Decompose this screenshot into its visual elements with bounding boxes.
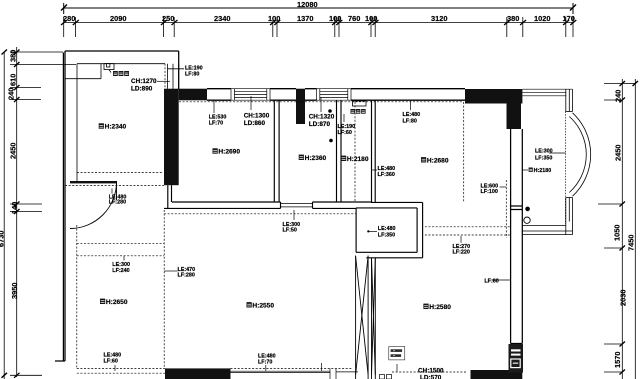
svg-text:LF:360: LF:360 xyxy=(378,172,395,178)
svg-text:LF:80: LF:80 xyxy=(403,118,417,124)
svg-text:LF:280: LF:280 xyxy=(109,200,126,206)
svg-text:H:2680: H:2680 xyxy=(427,158,449,165)
svg-text:240: 240 xyxy=(7,88,16,100)
top overall dimension line 12080 xyxy=(61,3,576,14)
room label 层H:2690 xyxy=(213,148,218,153)
top main wall xyxy=(207,89,465,101)
svg-text:H:2180: H:2180 xyxy=(347,156,369,163)
svg-text:LF:70: LF:70 xyxy=(258,360,272,366)
svg-text:380: 380 xyxy=(9,50,18,62)
right wall xyxy=(511,129,523,344)
tiny label box bottom xyxy=(389,347,405,360)
svg-text:2340: 2340 xyxy=(214,14,230,23)
svg-text:100: 100 xyxy=(268,14,280,23)
svg-text:H:2650: H:2650 xyxy=(106,299,128,306)
dashed vertical in hallway xyxy=(354,102,356,202)
window 2 xyxy=(317,89,351,101)
interior wall B xyxy=(337,100,342,202)
svg-text:LF:100: LF:100 xyxy=(481,189,498,195)
room label 层H:2360 xyxy=(299,155,304,160)
svg-text:LE:480: LE:480 xyxy=(378,226,396,232)
bottom middle lines xyxy=(231,363,468,379)
svg-text:LF:350: LF:350 xyxy=(378,233,395,239)
room label 层H:2180 xyxy=(341,156,346,161)
svg-text:240: 240 xyxy=(614,90,623,102)
dashed ceiling line below top wall xyxy=(179,101,464,103)
svg-text:2450: 2450 xyxy=(614,145,623,161)
svg-text:CH:1320: CH:1320 xyxy=(309,114,335,121)
room label 层H:2550 xyxy=(247,302,252,307)
svg-text:3950: 3950 xyxy=(10,283,19,299)
hatch column xyxy=(356,256,376,379)
middle horizontal wall xyxy=(164,185,371,208)
balcony dashed lines xyxy=(65,64,165,186)
water heater box xyxy=(353,101,367,106)
svg-text:LF:80: LF:80 xyxy=(185,71,199,77)
interior wall C xyxy=(372,100,376,202)
svg-text:760: 760 xyxy=(348,14,360,23)
svg-text:CH:1300: CH:1300 xyxy=(244,113,270,120)
svg-text:H:2180: H:2180 xyxy=(534,168,552,174)
svg-text:LD:870: LD:870 xyxy=(309,121,331,128)
svg-text:1020: 1020 xyxy=(534,14,550,23)
top dimension line 2 xyxy=(64,17,573,37)
watermark logo xyxy=(509,344,524,373)
black walls xyxy=(164,89,522,379)
svg-text:CH:1270: CH:1270 xyxy=(131,78,157,85)
svg-text:6730: 6730 xyxy=(0,231,6,247)
room label 层H:2340 xyxy=(99,123,104,128)
svg-text:380: 380 xyxy=(507,14,519,23)
svg-text:170: 170 xyxy=(563,14,575,23)
svg-text:LE:480: LE:480 xyxy=(403,112,421,118)
balcony right window xyxy=(168,64,185,89)
dots xyxy=(328,109,530,232)
svg-text:2090: 2090 xyxy=(110,14,126,23)
svg-text:H:2550: H:2550 xyxy=(252,303,274,310)
svg-text:3120: 3120 xyxy=(431,14,447,23)
living room dashed xyxy=(77,210,353,373)
svg-text:100: 100 xyxy=(329,14,341,23)
svg-text:12080: 12080 xyxy=(297,0,318,9)
top dimension line ticks xyxy=(61,20,576,25)
svg-text:7450: 7450 xyxy=(627,235,636,251)
leaders xyxy=(112,81,566,371)
svg-text:LF:60: LF:60 xyxy=(104,359,118,365)
window 1 xyxy=(231,89,270,101)
svg-text:LF:350: LF:350 xyxy=(535,156,552,162)
window 3 top-right xyxy=(522,89,572,96)
svg-text:140: 140 xyxy=(10,202,19,214)
svg-text:LE:300: LE:300 xyxy=(535,149,553,155)
gas meter box xyxy=(104,64,114,73)
room label 层H:2680 xyxy=(421,157,426,162)
svg-text:2030: 2030 xyxy=(619,290,628,306)
dashed lines room 2580 xyxy=(425,102,511,238)
svg-text:LF:220: LF:220 xyxy=(453,249,470,255)
svg-text:250: 250 xyxy=(162,14,174,23)
svg-text:610: 610 xyxy=(9,74,18,86)
water heater label 热水器 xyxy=(351,109,356,114)
svg-text:LF:60: LF:60 xyxy=(338,130,352,136)
room label 层H:2650 xyxy=(100,299,105,304)
tiny ceiling note box xyxy=(391,349,403,352)
corridor long dashed line xyxy=(164,213,356,215)
svg-text:LD:570: LD:570 xyxy=(420,375,442,379)
svg-text:LD:860: LD:860 xyxy=(244,120,266,127)
svg-text:2450: 2450 xyxy=(9,143,18,159)
interior wall A xyxy=(274,100,279,202)
svg-text:LD:890: LD:890 xyxy=(131,86,153,93)
svg-text:280: 280 xyxy=(63,14,75,23)
right dimension lines xyxy=(598,79,638,379)
svg-text:LF:280: LF:280 xyxy=(178,273,195,279)
svg-text:1370: 1370 xyxy=(297,14,313,23)
bay label 吊H:2180 xyxy=(529,168,533,172)
svg-text:1570: 1570 xyxy=(613,352,622,368)
bay window xyxy=(566,89,591,234)
svg-text:H:2360: H:2360 xyxy=(305,155,327,162)
room label 层H:2580 xyxy=(423,304,428,309)
bay bottom wall xyxy=(522,226,572,235)
door leaf and arc xyxy=(70,181,117,229)
balcony inner lines xyxy=(65,64,165,182)
svg-text:LF:60: LF:60 xyxy=(484,279,498,285)
svg-text:H:2340: H:2340 xyxy=(105,124,127,131)
svg-text:LF:50: LF:50 xyxy=(283,228,297,234)
svg-text:LF:70: LF:70 xyxy=(209,120,223,126)
svg-text:LF:240: LF:240 xyxy=(112,268,129,274)
outer wall: balcony top-left xyxy=(55,51,179,361)
svg-text:H:2690: H:2690 xyxy=(218,149,240,156)
svg-text:1050: 1050 xyxy=(613,225,622,241)
svg-text:100: 100 xyxy=(365,14,377,23)
left dimension lines xyxy=(2,47,77,379)
closet box xyxy=(356,202,423,257)
svg-text:CH:1500: CH:1500 xyxy=(418,368,444,375)
gas meter label 煤气表 xyxy=(113,71,118,76)
svg-text:H:2580: H:2580 xyxy=(429,304,451,311)
